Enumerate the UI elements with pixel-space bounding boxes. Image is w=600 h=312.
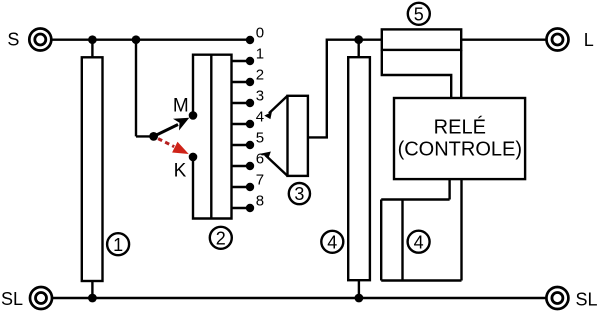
svg-text:3: 3 [294, 184, 304, 204]
svg-text:SL: SL [1, 289, 23, 309]
svg-text:3: 3 [256, 87, 264, 104]
svg-text:4: 4 [414, 232, 424, 252]
svg-text:L: L [584, 30, 594, 50]
svg-text:4: 4 [256, 108, 264, 125]
svg-text:K: K [174, 161, 187, 182]
svg-text:5: 5 [256, 129, 264, 146]
svg-text:8: 8 [256, 192, 264, 209]
svg-text:2: 2 [256, 66, 264, 83]
svg-text:5: 5 [414, 4, 424, 24]
svg-text:2: 2 [216, 228, 226, 248]
svg-text:RELÉ: RELÉ [434, 115, 486, 138]
svg-text:S: S [7, 30, 19, 50]
svg-text:6: 6 [256, 150, 264, 167]
svg-text:SL: SL [576, 290, 598, 310]
svg-text:1: 1 [256, 45, 264, 62]
svg-text:(CONTROLE): (CONTROLE) [398, 139, 522, 161]
svg-text:4: 4 [327, 232, 337, 252]
svg-text:7: 7 [256, 171, 264, 188]
svg-text:M: M [173, 95, 189, 116]
svg-text:0: 0 [256, 24, 264, 41]
svg-text:1: 1 [113, 235, 123, 255]
